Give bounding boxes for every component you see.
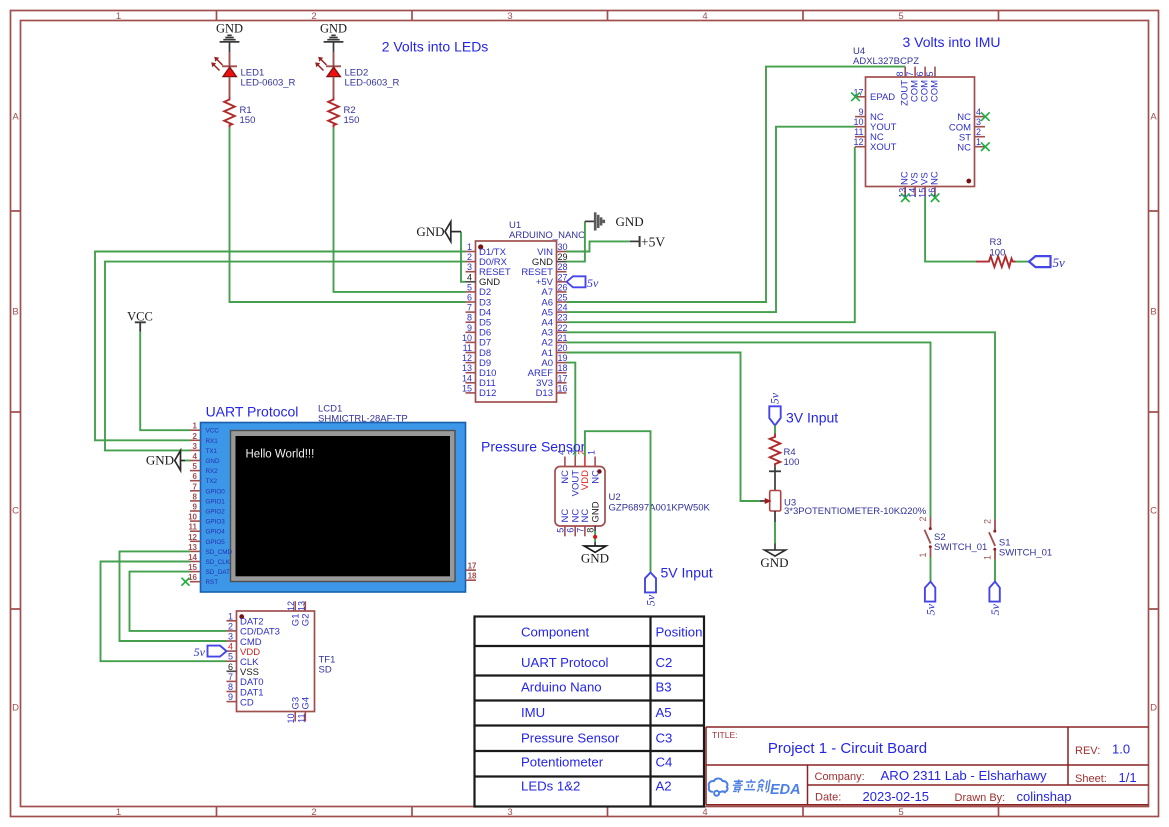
svg-text:UART Protocol: UART Protocol: [521, 655, 609, 670]
svg-text:15: 15: [917, 188, 927, 198]
svg-text:12: 12: [853, 137, 863, 147]
wire U1 A4 to U4 XOUT: [567, 147, 855, 323]
svg-text:5v: 5v: [587, 276, 599, 290]
svg-text:2: 2: [976, 127, 981, 137]
svg-text:3*3POTENTIOMETER-10KΩ20%: 3*3POTENTIOMETER-10KΩ20%: [784, 506, 927, 517]
svg-text:3: 3: [228, 632, 233, 642]
svg-text:3: 3: [567, 450, 577, 455]
ground GND (above LED2): [320, 22, 347, 53]
svg-text:5V Input: 5V Input: [661, 565, 713, 581]
U4 bottom pins 13,14,15,16: [897, 171, 940, 202]
svg-text:RX1: RX1: [206, 438, 219, 445]
net flag 5v (3V Input): [768, 392, 782, 425]
svg-text:GPIO4: GPIO4: [206, 529, 226, 536]
svg-text:4: 4: [702, 11, 707, 22]
svg-text:10: 10: [462, 333, 472, 343]
TF1 bottom pins 10,11: [286, 697, 311, 724]
svg-text:27: 27: [558, 272, 568, 282]
svg-text:8: 8: [586, 528, 596, 533]
wire R3 to 5v flag: [1016, 261, 1030, 263]
svg-text:5: 5: [467, 282, 472, 292]
svg-text:7: 7: [905, 71, 915, 76]
svg-text:NC: NC: [957, 142, 971, 153]
LCD1 left pins 1-16: [182, 422, 233, 587]
wire U1 A1 to U3 wiper: [567, 353, 761, 502]
svg-text:7: 7: [575, 528, 585, 533]
switch S1 SWITCH_01: [983, 519, 1053, 560]
resistor R3 100: [976, 237, 1016, 267]
wire U3 to GND: [774, 522, 776, 544]
svg-text:1: 1: [587, 450, 597, 455]
wire U2 VDD to 5V input net: [585, 431, 651, 572]
svg-text:GND: GND: [590, 501, 601, 522]
svg-text:U2: U2: [609, 492, 621, 503]
svg-text:4: 4: [467, 272, 472, 282]
wire U4 VS(15) to R3: [925, 197, 976, 262]
svg-text:4: 4: [556, 450, 566, 455]
svg-text:6: 6: [915, 71, 925, 76]
svg-text:C: C: [12, 506, 19, 517]
svg-text:1: 1: [976, 137, 981, 147]
svg-text:RX2: RX2: [206, 468, 219, 475]
svg-text:1: 1: [918, 552, 928, 557]
U1 left pins 1-15: [462, 242, 511, 399]
svg-text:8: 8: [193, 492, 198, 501]
svg-text:GND: GND: [206, 458, 220, 465]
svg-text:A2: A2: [656, 779, 672, 794]
IC U2 GZP6897A001KPW50K body: [555, 467, 711, 527]
svg-text:30: 30: [558, 242, 568, 252]
wire LED1 anode to R1: [229, 77, 231, 97]
U4 right pins 4,3,2,1: [949, 107, 990, 153]
svg-text:29: 29: [558, 252, 568, 262]
LCD LCD1 SHMICTRL-28AF-TP body: [201, 404, 466, 593]
svg-text:20: 20: [558, 343, 568, 353]
resistor R4 100: [770, 434, 800, 468]
svg-text:18: 18: [468, 572, 477, 581]
svg-text:ARDUINO_NANO: ARDUINO_NANO: [509, 230, 586, 241]
U1 right pins 16-30: [521, 242, 567, 399]
LED LED2 LED-0603_R: [315, 57, 399, 89]
svg-text:4: 4: [193, 452, 198, 461]
wire LCD1 SD_DAT to TF1 CD/DAT3: [130, 572, 227, 631]
svg-text:Drawn By:: Drawn By:: [955, 792, 1006, 804]
svg-text:7: 7: [467, 303, 472, 313]
svg-text:LED-0603_R: LED-0603_R: [345, 78, 400, 89]
svg-text:Potentiometer: Potentiometer: [521, 755, 604, 770]
svg-text:100: 100: [990, 248, 1006, 259]
svg-text:VCC: VCC: [206, 428, 220, 435]
svg-text:C4: C4: [656, 755, 673, 770]
wire LCD1 SD_CLK to TF1 CLK: [101, 562, 227, 662]
svg-text:A: A: [12, 112, 19, 123]
svg-text:XOUT: XOUT: [870, 142, 897, 153]
TF1 left pins 1-9: [227, 611, 280, 708]
svg-text:6: 6: [467, 293, 472, 303]
svg-text:Project 1 - Circuit Board: Project 1 - Circuit Board: [768, 740, 927, 757]
component position table: [475, 617, 705, 807]
svg-text:EDA: EDA: [770, 782, 801, 798]
svg-text:2 Volts into LEDs: 2 Volts into LEDs: [382, 39, 489, 55]
svg-text:GPIO0: GPIO0: [206, 488, 226, 495]
svg-text:ADXL327BCPZ: ADXL327BCPZ: [853, 56, 919, 67]
svg-text:4: 4: [228, 642, 233, 652]
svg-text:Hello World!!!: Hello World!!!: [246, 449, 315, 461]
svg-text:5: 5: [228, 652, 233, 662]
wire LED2 cathode to GND: [333, 52, 335, 66]
svg-text:13: 13: [462, 363, 472, 373]
svg-text:2: 2: [311, 807, 316, 818]
U2 top pins 4,3,2,1: [556, 450, 601, 496]
EDA logo: [709, 778, 801, 798]
svg-text:6: 6: [566, 528, 576, 533]
svg-text:GND: GND: [416, 224, 444, 239]
svg-text:RST: RST: [206, 579, 219, 586]
wire LCD1 SD_CMD to TF1 CMD: [120, 551, 227, 641]
U2 bottom pins 5,6,7,8: [555, 501, 601, 536]
svg-text:Date:: Date:: [815, 792, 841, 804]
IC TF1 SD card body: [237, 611, 336, 712]
svg-text:13: 13: [296, 601, 306, 611]
svg-text:A5: A5: [656, 705, 672, 720]
svg-text:C3: C3: [656, 730, 673, 745]
svg-text:18: 18: [558, 363, 568, 373]
svg-text:A: A: [1150, 112, 1157, 123]
svg-text:12: 12: [286, 601, 296, 611]
svg-text:colinshap: colinshap: [1017, 789, 1072, 804]
net flag 5v (below S1): [988, 582, 1002, 616]
svg-text:G4: G4: [301, 697, 312, 710]
svg-text:8: 8: [467, 313, 472, 323]
svg-text:1: 1: [116, 11, 121, 22]
svg-text:Arduino Nano: Arduino Nano: [521, 680, 602, 695]
svg-text:D12: D12: [479, 388, 496, 399]
svg-text:16: 16: [558, 383, 568, 393]
title block: [706, 727, 1149, 805]
svg-text:16: 16: [188, 573, 197, 582]
svg-text:11: 11: [296, 714, 306, 723]
wire U1 VIN to +5V: [567, 241, 630, 251]
wire U1 D1/TX to LCD1 RX1: [95, 252, 466, 441]
svg-text:SD_DAT: SD_DAT: [206, 569, 231, 576]
svg-text:REV:: REV:: [1075, 745, 1100, 757]
svg-text:9: 9: [858, 107, 863, 117]
TF1 top pins 12,13: [286, 601, 311, 626]
svg-text:TX1: TX1: [206, 448, 218, 455]
wire U1 GND(4) to GND flag: [461, 232, 466, 282]
wire U1 GND(29) to GND symbol: [567, 221, 585, 261]
net flag 5v at U1 pin27: [567, 276, 600, 290]
svg-text:UART Protocol: UART Protocol: [206, 404, 299, 420]
svg-text:R3: R3: [990, 237, 1002, 248]
svg-text:GPIO5: GPIO5: [206, 539, 226, 546]
svg-text:25: 25: [558, 293, 568, 303]
svg-text:LEDs 1&2: LEDs 1&2: [521, 779, 580, 794]
wire U1 A3 to S1: [567, 332, 996, 519]
svg-text:5v: 5v: [923, 603, 937, 615]
svg-text:3V Input: 3V Input: [786, 410, 838, 426]
svg-text:2: 2: [228, 621, 233, 631]
svg-text:D: D: [12, 703, 19, 714]
svg-text:150: 150: [344, 115, 360, 126]
net flag 5v (below S2): [923, 582, 937, 616]
svg-text:G2: G2: [301, 614, 312, 627]
svg-text:SD_CLK: SD_CLK: [206, 559, 231, 566]
ground flag GND (LCD1 pin4): [146, 451, 190, 471]
svg-text:IMU: IMU: [521, 705, 545, 720]
svg-text:3: 3: [507, 11, 512, 22]
svg-text:LED-0603_R: LED-0603_R: [241, 78, 296, 89]
ground GND (below U3): [760, 544, 788, 570]
svg-text:10: 10: [286, 714, 296, 724]
svg-text:B: B: [12, 307, 18, 318]
svg-text:SD: SD: [319, 665, 332, 676]
ground GND (right of U1): [585, 212, 644, 230]
svg-text:10: 10: [188, 513, 197, 522]
svg-text:TITLE:: TITLE:: [712, 730, 738, 740]
wire S1 to 5v flag: [994, 560, 996, 582]
svg-text:150: 150: [240, 115, 256, 126]
svg-text:GND: GND: [616, 214, 644, 229]
svg-text:GND: GND: [320, 22, 347, 36]
potentiometer U3: [760, 466, 927, 522]
svg-text:CD: CD: [240, 697, 254, 708]
svg-text:2: 2: [467, 252, 472, 262]
svg-text:COM: COM: [929, 80, 940, 102]
svg-text:8: 8: [228, 682, 233, 692]
svg-text:3 Volts into IMU: 3 Volts into IMU: [902, 34, 1000, 50]
svg-text:3: 3: [976, 117, 981, 127]
IC U4 ADXL327BCPZ body: [853, 46, 975, 187]
svg-text:21: 21: [558, 333, 568, 343]
svg-text:Company:: Company:: [815, 771, 865, 783]
net flag 5v (right of R3): [1029, 255, 1065, 270]
wire LED2 anode to R2: [333, 77, 335, 97]
resistor R2 150: [328, 97, 359, 128]
svg-text:1: 1: [983, 555, 993, 560]
svg-text:7: 7: [228, 672, 233, 682]
svg-text:SWITCH_01: SWITCH_01: [934, 542, 987, 553]
wire R2 to U1 D2 (net D2): [334, 128, 466, 292]
junction (U2 GND pin): [593, 535, 597, 539]
svg-text:28: 28: [558, 262, 568, 272]
svg-text:1: 1: [228, 611, 233, 621]
svg-text:Sheet:: Sheet:: [1075, 773, 1107, 785]
net flag 5v (5V Input): [644, 573, 658, 607]
power flag VCC: [127, 309, 153, 331]
svg-text:SWITCH_01: SWITCH_01: [999, 547, 1052, 558]
svg-text:D: D: [1150, 703, 1157, 714]
svg-text:GPIO2: GPIO2: [206, 509, 226, 516]
wire 3V flag to R4: [774, 425, 776, 433]
svg-text:14: 14: [907, 188, 917, 198]
svg-text:5: 5: [925, 71, 935, 76]
resistor R1 150: [224, 97, 255, 128]
svg-text:1: 1: [193, 422, 198, 431]
wire S2 to 5v flag: [930, 557, 932, 582]
svg-text:5v: 5v: [194, 645, 206, 659]
svg-text:D13: D13: [536, 388, 553, 399]
wire U1 A0 to U2 VOUT: [567, 363, 576, 457]
svg-text:C2: C2: [656, 655, 673, 670]
svg-text:5: 5: [898, 11, 903, 22]
LCD1 right pins 17,18: [466, 562, 478, 581]
svg-text:+5V: +5V: [641, 234, 665, 249]
svg-text:1.0: 1.0: [1112, 742, 1130, 757]
svg-text:17: 17: [468, 562, 477, 571]
LED LED1 LED-0603_R: [211, 57, 295, 89]
ground GND (above LED1): [216, 22, 243, 53]
net flag 5v at TF1 VDD: [194, 645, 227, 659]
svg-text:8: 8: [895, 71, 905, 76]
svg-text:GND: GND: [581, 550, 609, 565]
svg-text:9: 9: [467, 323, 472, 333]
svg-text:C: C: [1150, 506, 1157, 517]
svg-text:2023-02-15: 2023-02-15: [863, 789, 930, 804]
svg-text:22: 22: [558, 323, 568, 333]
svg-text:100: 100: [784, 457, 800, 468]
svg-text:EPAD: EPAD: [870, 92, 895, 103]
svg-text:12: 12: [188, 533, 197, 542]
svg-text:GPIO3: GPIO3: [206, 519, 226, 526]
svg-text:6: 6: [228, 662, 233, 672]
svg-text:NC: NC: [929, 171, 940, 185]
svg-text:SD_CMD: SD_CMD: [206, 549, 233, 556]
svg-text:1/1: 1/1: [1119, 770, 1137, 785]
svg-text:5v: 5v: [768, 392, 782, 404]
svg-text:5v: 5v: [644, 594, 658, 606]
svg-text:26: 26: [558, 282, 568, 292]
svg-text:Component: Component: [521, 625, 590, 640]
svg-text:5: 5: [898, 807, 903, 818]
wire U1 A5 to U4 YOUT: [567, 127, 856, 312]
svg-text:19: 19: [558, 353, 568, 363]
svg-text:1: 1: [116, 807, 121, 818]
svg-text:7: 7: [193, 482, 198, 491]
svg-text:6: 6: [193, 472, 198, 481]
svg-text:VCC: VCC: [127, 309, 153, 323]
svg-text:24: 24: [558, 303, 568, 313]
svg-text:NC: NC: [590, 470, 601, 484]
wire U1 D0/RX to LCD1 TX1: [105, 262, 466, 451]
svg-text:GZP6897A001KPW50K: GZP6897A001KPW50K: [609, 503, 711, 514]
svg-text:2: 2: [983, 519, 993, 524]
power flag +5V: [630, 234, 666, 249]
svg-text:TX2: TX2: [206, 478, 218, 485]
switch S2 SWITCH_01: [918, 516, 987, 557]
svg-text:2: 2: [918, 516, 928, 521]
svg-text:5: 5: [193, 462, 198, 471]
svg-text:5v: 5v: [988, 603, 1002, 615]
svg-text:Position: Position: [656, 625, 703, 640]
svg-text:12: 12: [462, 353, 472, 363]
op-amp U1 ARDUINO_NANO body: [476, 220, 586, 402]
wire R1 to U1 D3 (net D3): [230, 128, 466, 302]
svg-text:4: 4: [702, 807, 707, 818]
svg-text:11: 11: [189, 523, 198, 532]
svg-text:GND: GND: [760, 555, 788, 570]
svg-text:15: 15: [462, 383, 472, 393]
svg-text:1: 1: [467, 242, 472, 252]
svg-text:ARO 2311 Lab - Elsharhawy: ARO 2311 Lab - Elsharhawy: [881, 768, 1048, 783]
svg-text:9: 9: [228, 692, 233, 702]
svg-text:3: 3: [193, 442, 198, 451]
svg-text:2: 2: [193, 432, 198, 441]
svg-text:GND: GND: [146, 453, 174, 468]
U4 left pins 17,9,10,11,12: [851, 87, 896, 153]
svg-text:11: 11: [463, 343, 472, 353]
svg-text:23: 23: [558, 313, 568, 323]
svg-text:3: 3: [507, 807, 512, 818]
wire U1 A6 to U4 ZOUT: [567, 67, 906, 302]
svg-text:GND: GND: [216, 22, 243, 36]
svg-text:4: 4: [976, 107, 981, 117]
svg-text:B3: B3: [656, 680, 672, 695]
svg-text:17: 17: [558, 373, 568, 383]
wire LED1 cathode to GND: [229, 52, 231, 66]
svg-text:2: 2: [311, 11, 316, 22]
U4 top pins 8,7,6,5: [895, 67, 940, 106]
svg-text:14: 14: [462, 373, 472, 383]
wire VCC to LCD1 VCC: [140, 332, 190, 431]
svg-text:11: 11: [854, 127, 863, 137]
svg-text:Pressure Sensor: Pressure Sensor: [521, 730, 620, 745]
ground GND (below U2): [581, 539, 609, 566]
ground flag GND (left of U1): [416, 222, 461, 242]
svg-text:5v: 5v: [1053, 255, 1066, 270]
svg-text:10: 10: [853, 117, 863, 127]
svg-text:5: 5: [555, 528, 565, 533]
svg-text:GPIO1: GPIO1: [206, 498, 226, 505]
wire U1 A2 to S2: [567, 342, 931, 517]
svg-text:3: 3: [467, 262, 472, 272]
svg-text:9: 9: [193, 503, 198, 512]
svg-text:B: B: [1150, 307, 1156, 318]
